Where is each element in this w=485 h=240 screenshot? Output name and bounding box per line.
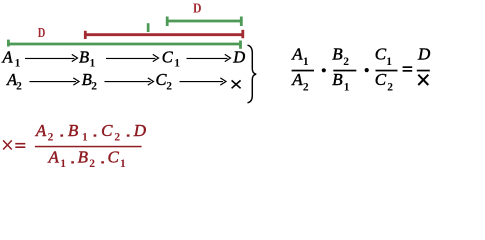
svg-text:D: D	[232, 48, 245, 67]
row 1 arrow 1	[25, 54, 78, 61]
svg-text:1: 1	[15, 58, 21, 70]
svg-text:C: C	[108, 148, 120, 167]
dark red line I	[85, 30, 244, 39]
svg-text:1: 1	[174, 58, 180, 70]
svg-text:B: B	[68, 121, 79, 140]
svg-text:1: 1	[303, 56, 309, 68]
svg-text:A: A	[48, 148, 60, 167]
svg-text:1: 1	[344, 81, 350, 93]
svg-text:1: 1	[82, 132, 88, 144]
svg-text:A: A	[2, 48, 14, 67]
svg-text:2: 2	[387, 81, 393, 93]
svg-text:C: C	[375, 44, 387, 63]
svg-text:B: B	[79, 48, 89, 67]
svg-text:1: 1	[386, 56, 392, 68]
bottom fraction bar	[35, 146, 142, 148]
svg-text:2: 2	[91, 81, 97, 93]
svg-text:2: 2	[16, 81, 22, 93]
svg-text:B: B	[332, 70, 343, 89]
svg-text:B: B	[78, 148, 89, 167]
svg-text:D: D	[193, 2, 202, 17]
dot 2	[365, 68, 369, 72]
brace	[248, 45, 257, 103]
svg-text:A: A	[291, 70, 303, 89]
dot 1	[322, 68, 326, 72]
svg-text:2: 2	[114, 132, 120, 144]
row 1 arrow 2	[106, 54, 159, 61]
row 2: x (unknown)	[232, 80, 241, 88]
svg-text:C: C	[101, 121, 113, 140]
bottom formula: x	[3, 140, 12, 149]
svg-text:C: C	[375, 70, 387, 89]
svg-text:A: A	[291, 44, 303, 63]
svg-text:1: 1	[90, 58, 96, 70]
svg-text:D: D	[133, 121, 147, 140]
bottom formula: equals	[15, 143, 25, 145]
label I	[147, 23, 150, 32]
svg-text:2: 2	[166, 81, 172, 93]
equals sign	[403, 66, 413, 68]
svg-text:A: A	[35, 121, 47, 140]
green bracket D2 top	[167, 17, 243, 27]
svg-text:2: 2	[343, 56, 349, 68]
row 2 arrow 2	[105, 78, 154, 85]
svg-text:1: 1	[120, 158, 126, 170]
row 2 arrow 3	[180, 78, 227, 85]
svg-text:D: D	[417, 44, 431, 63]
svg-text:1: 1	[60, 158, 66, 170]
svg-text:2: 2	[48, 132, 54, 144]
green line D1 long	[8, 40, 242, 49]
svg-text:2: 2	[89, 158, 95, 170]
svg-text:C: C	[162, 48, 174, 67]
svg-text:D: D	[38, 26, 46, 41]
svg-text:2: 2	[303, 81, 309, 93]
row 2 arrow 1	[30, 78, 80, 85]
row 1 arrow 3	[187, 54, 231, 61]
svg-text:B: B	[332, 44, 343, 63]
